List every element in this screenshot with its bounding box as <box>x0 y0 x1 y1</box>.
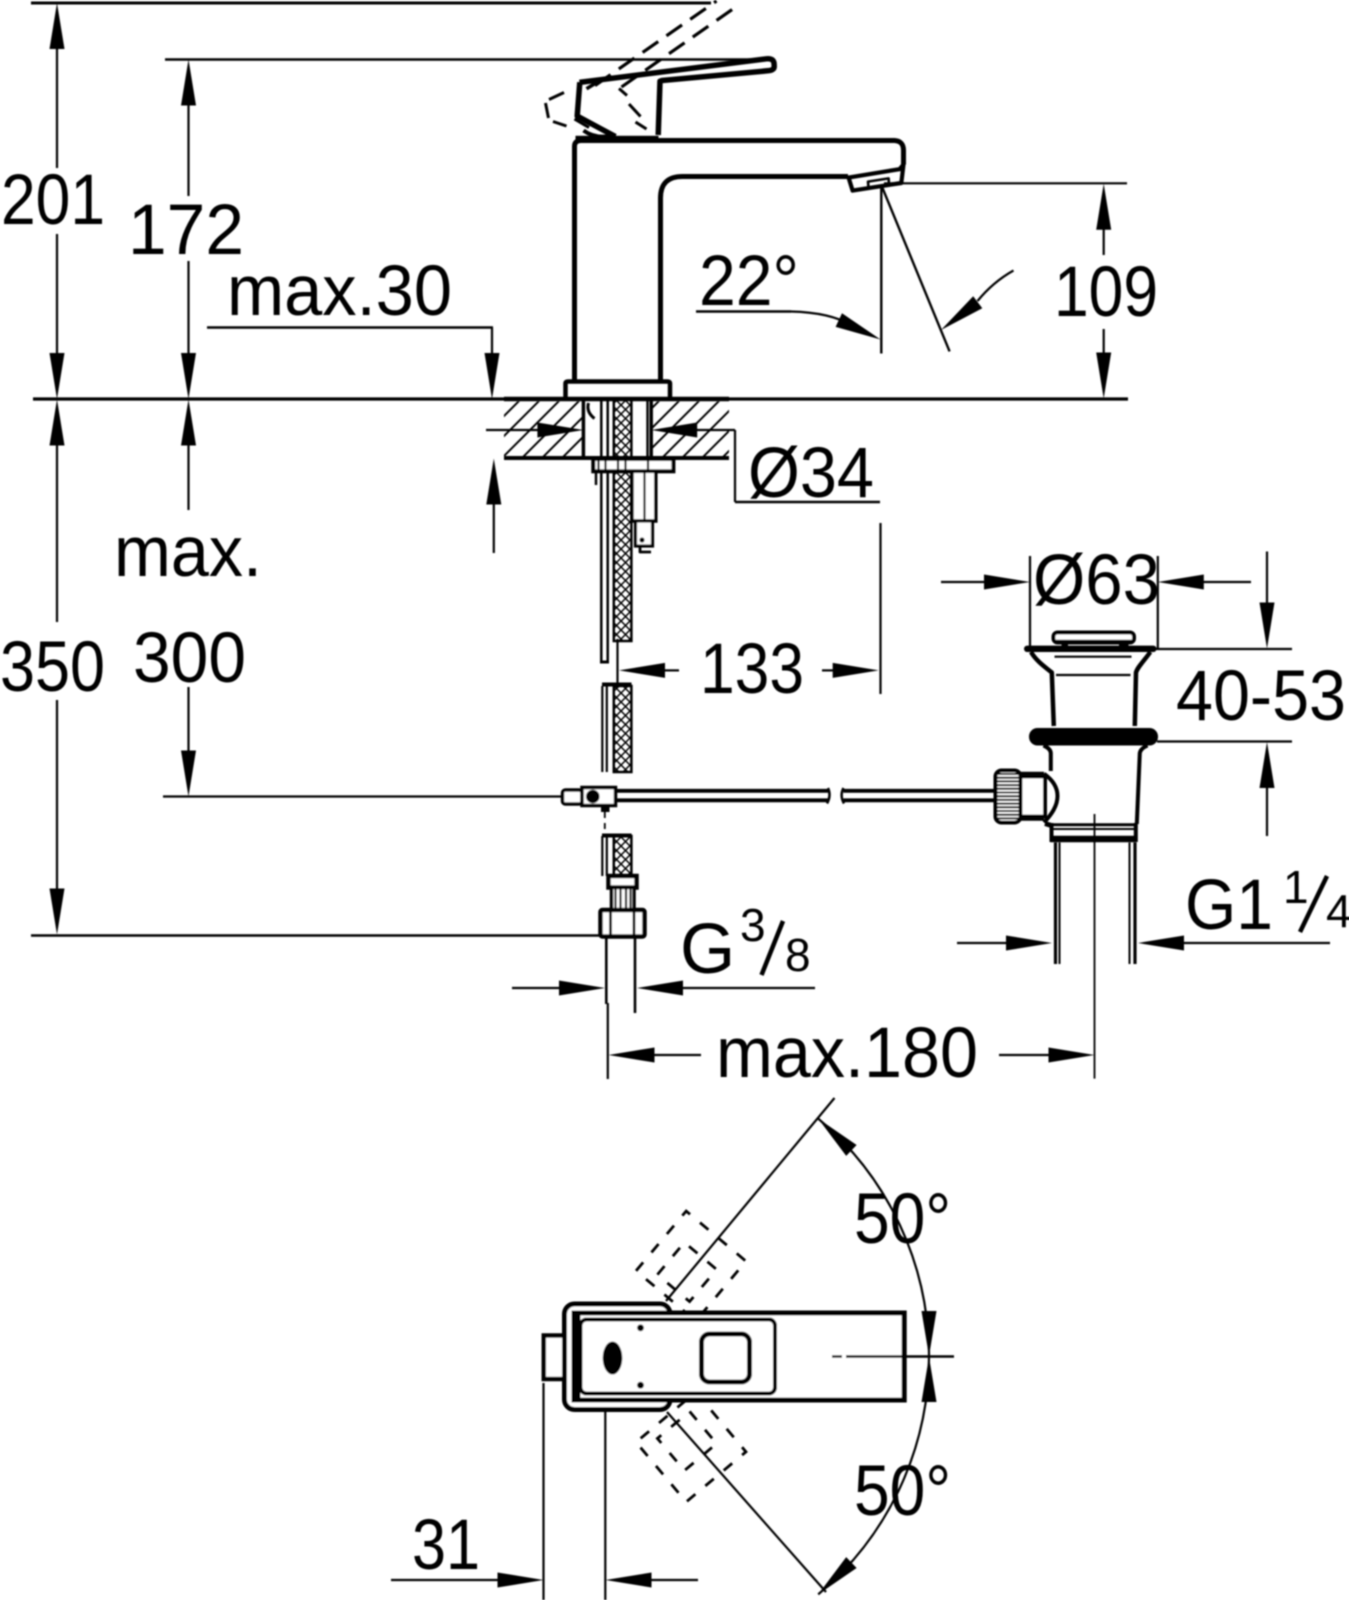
plan dashed square lower inner <box>657 1411 716 1470</box>
leader curve to vertical line <box>791 312 851 326</box>
dimension 133 arrow right <box>833 663 879 678</box>
countertop hatching right <box>651 402 729 457</box>
hose middle left line inner <box>606 686 608 772</box>
dimension max.300 arrow down <box>181 751 196 797</box>
rod break mark left <box>827 788 830 804</box>
waste center line <box>1094 814 1096 1079</box>
supply pipe right line <box>634 937 637 1014</box>
waste funnel right side <box>1135 652 1151 726</box>
svg-text:max.: max. <box>114 513 262 592</box>
waste push button cap <box>1054 633 1135 643</box>
connector rib 2 <box>619 888 621 910</box>
dimension 31 left extension line <box>542 1383 544 1600</box>
raised handle dash b <box>546 103 549 118</box>
waste knob stem <box>1021 777 1046 817</box>
dimension max.300 line lower segment <box>187 687 189 752</box>
connector rib 1 <box>614 888 616 910</box>
waste ring band top line <box>1052 823 1136 826</box>
raised handle dash a <box>549 93 564 100</box>
handle base inner corner line <box>587 82 599 89</box>
waste pipe outer left <box>1054 843 1057 965</box>
dimension 133 arrow left <box>619 663 665 678</box>
dimension 109 arrow down <box>1096 353 1111 399</box>
dimension 31 arrow right <box>498 1573 544 1588</box>
plan dashed square upper outer <box>636 1211 746 1321</box>
dimension max.30 leader line <box>207 326 493 328</box>
waste funnel inner line 1 <box>1055 656 1132 658</box>
dimension 201 arrow down <box>50 353 65 399</box>
dimension G3/8 right tail <box>683 987 815 989</box>
plan body square <box>565 1304 671 1410</box>
plan dot lower <box>637 1382 644 1389</box>
mounting bracket inner line <box>643 471 645 521</box>
svg-text:4: 4 <box>1326 885 1349 937</box>
countertop bottom line <box>504 456 729 460</box>
plan spout tab <box>544 1336 565 1380</box>
pivot dashed drop line <box>604 812 606 833</box>
faucet body right edge and spout underside <box>661 177 849 382</box>
dimension 40-53 arrow up <box>1260 742 1275 788</box>
arc arrow at centerline up <box>922 1357 937 1402</box>
hose middle cap <box>602 683 632 687</box>
plan cartridge square <box>702 1334 750 1382</box>
plan lever rectangle <box>574 1313 904 1400</box>
svg-text:133: 133 <box>700 630 804 709</box>
svg-text:50°: 50° <box>854 1452 951 1531</box>
svg-text:G: G <box>680 910 735 989</box>
dimension 172 arrow down <box>181 353 196 399</box>
waste push button foot left <box>1062 642 1069 648</box>
countertop hatching left <box>504 402 583 457</box>
plan centerline dash <box>832 1355 842 1357</box>
dimension 31 arrow left <box>606 1573 652 1588</box>
raised handle dash d <box>575 119 590 128</box>
dimension 133 right extension line <box>879 523 881 694</box>
dimension G1-1/4 arrow left <box>1138 936 1184 951</box>
plan dashed square lower outer <box>636 1392 746 1502</box>
dimension 350 arrow down <box>50 889 65 935</box>
pop-up rod segment 2 bottom <box>844 798 997 802</box>
dimension 201 line upper segment <box>56 46 58 168</box>
connector wide cap <box>609 876 637 888</box>
dimension 40-53 top reference line <box>1154 648 1292 650</box>
hose middle left line outer <box>601 686 603 772</box>
connector nut <box>601 910 645 937</box>
waste inlet boss top line <box>1020 772 1044 776</box>
plan diagonal line lower <box>667 1412 826 1592</box>
svg-text:max.180: max.180 <box>716 1014 978 1093</box>
waste body bottom left corner <box>1045 824 1053 827</box>
svg-text:201: 201 <box>1 161 105 240</box>
waste ring band left edge <box>1050 823 1054 842</box>
arc arrow lower end <box>818 1557 856 1594</box>
pivot lower tick <box>601 806 610 813</box>
mounting bracket foot <box>640 546 651 552</box>
waste flange lip <box>1024 646 1157 652</box>
mounting plate tick 1 <box>597 459 599 471</box>
dimension 133 left extension line <box>616 639 618 688</box>
svg-text:300: 300 <box>133 619 246 698</box>
raised handle dash c <box>553 122 567 127</box>
dimension 31 right extension line <box>604 1412 606 1600</box>
shank sleeve right line <box>649 399 653 457</box>
dimension 133 right tail <box>822 669 833 671</box>
arc arrow upper end <box>818 1119 856 1156</box>
dimension dia63 arrow right <box>984 575 1030 590</box>
mounting bracket lower step <box>636 521 653 546</box>
dimension 201 top reference line <box>31 2 711 5</box>
dimension max.300 bottom reference line <box>163 795 563 797</box>
dimension dia63 arrow left <box>1158 575 1204 590</box>
plan dashed square upper inner <box>657 1242 716 1301</box>
dimension G1-1/4 right tail <box>1184 942 1330 944</box>
dimension dia63 left tail <box>941 581 985 583</box>
svg-text:G1: G1 <box>1185 866 1273 945</box>
dimension max.30 arrow up below counter <box>486 459 501 505</box>
dimension 350 line upper segment <box>56 444 58 622</box>
waste funnel inner line 2 <box>1056 674 1131 676</box>
dimension G1-1/4 arrow right <box>1006 936 1052 951</box>
dimension 109 top reference line <box>884 182 1127 184</box>
dimension 40-53 lower tail <box>1266 787 1268 836</box>
svg-text:3: 3 <box>740 899 766 951</box>
dimension 109 lower tail <box>1103 329 1105 353</box>
handle base front arc <box>584 131 614 137</box>
svg-text:Ø34: Ø34 <box>748 434 874 513</box>
leader arrow at vertical line <box>836 313 881 339</box>
dimension 31 right tail <box>652 1579 699 1581</box>
waste o-ring <box>1029 728 1158 746</box>
connector rib 3 <box>625 888 627 910</box>
dimension max.30 tail below counter <box>493 503 495 553</box>
dimension 109 upper tail <box>1103 229 1105 255</box>
dimension 31 left tail <box>391 1579 498 1581</box>
handle lever outline <box>580 59 775 135</box>
waste push button foot right <box>1119 642 1129 648</box>
waste body left wall <box>1044 746 1051 772</box>
svg-text:31: 31 <box>412 1506 480 1585</box>
leader curve to angled line <box>978 271 1014 302</box>
waste push button inner line <box>1056 640 1132 642</box>
mounting bracket upper <box>632 471 656 521</box>
rod break mark right <box>842 788 844 804</box>
mounting plate tick 2 <box>604 459 606 471</box>
shank hook detail <box>588 403 595 419</box>
dimension dia34 leader vertical <box>734 430 736 502</box>
plan dot upper <box>637 1324 644 1331</box>
svg-text:max.30: max.30 <box>227 252 452 331</box>
faucet base flange <box>566 382 671 399</box>
hose end cap <box>600 661 609 664</box>
leader arrow at angled line <box>941 296 982 330</box>
mounting plate tick 5 <box>647 459 649 471</box>
shank sleeve right inner line <box>646 399 648 457</box>
plan kidney blob <box>603 1342 623 1375</box>
hose lower band <box>614 836 632 876</box>
plan lever inner surface <box>581 1320 776 1394</box>
pivot ball <box>586 790 600 804</box>
waste inlet boss bottom line <box>1020 817 1044 821</box>
raised handle dashed edge 1 <box>595 1 717 86</box>
connector ribbed section <box>612 888 635 911</box>
hose left line inner <box>606 401 609 662</box>
waste pipe inner left <box>1059 843 1061 965</box>
raised handle dash f <box>629 104 641 117</box>
svg-text:1: 1 <box>1283 861 1309 913</box>
mounting plate <box>593 459 673 471</box>
waste knob knurling <box>998 773 1019 775</box>
angle arc upper <box>818 1119 929 1357</box>
dimension 40-53 upper tail <box>1266 552 1268 605</box>
connector nut facet left <box>609 911 612 936</box>
mounting plate left drop line <box>595 471 598 485</box>
countertop top line <box>33 397 1128 400</box>
dimension max.180 left tail <box>655 1054 702 1056</box>
dimension dia34 left tail <box>486 429 538 431</box>
dimension 40-53 bottom reference line <box>1157 740 1292 742</box>
dimension 201 arrow up <box>50 3 65 49</box>
dimension G3/8 arrow left <box>637 981 683 996</box>
plan diagonal line upper <box>666 1098 835 1301</box>
dimension dia34 arrow left <box>651 423 697 438</box>
dimension max.30 arrow down <box>485 353 500 399</box>
shank sleeve left line <box>582 399 586 457</box>
dimension dia34 label underline <box>735 501 880 503</box>
handle base black strip <box>576 136 659 143</box>
threaded shank band <box>614 399 632 641</box>
label 22 deg underline <box>696 310 791 312</box>
dimension max.30 drop line <box>491 328 493 356</box>
dimension 109 arrow up <box>1096 184 1111 230</box>
raised handle dash e <box>619 89 627 96</box>
svg-text:22°: 22° <box>699 242 799 321</box>
connector nut facet right <box>633 911 636 936</box>
dimension G3/8 left tail <box>512 987 562 989</box>
dimension 350 line lower segment <box>56 700 58 890</box>
water stream vertical line <box>880 186 882 354</box>
spout aerator block <box>849 165 904 191</box>
waste knob <box>996 771 1021 823</box>
dimension 133 left tail <box>665 669 679 671</box>
waste ring band inner line <box>1053 828 1134 830</box>
svg-text:Ø63: Ø63 <box>1033 541 1160 620</box>
waste ring band right edge <box>1134 823 1138 842</box>
connector rib 4 <box>629 888 631 910</box>
waste ring band thick bottom <box>1051 836 1137 843</box>
dimension max.180 arrow right <box>1049 1048 1095 1063</box>
waste body right wall <box>1137 746 1148 825</box>
dimension 40-53 arrow down <box>1260 603 1275 649</box>
plan lever left thick edge <box>574 1313 581 1400</box>
handle base left outline <box>577 82 615 136</box>
dimension dia63 right tail <box>1203 581 1251 583</box>
dimension max.300 line upper segment <box>187 444 189 510</box>
dimension G1-1/4 left tail <box>957 942 1007 944</box>
waste inlet bulge <box>1044 774 1058 823</box>
faucet body outline <box>575 141 904 382</box>
mounting plate tick 3 <box>617 459 619 471</box>
raised handle dash g <box>636 122 647 129</box>
dimension 172 top reference line <box>165 58 771 61</box>
dimension 350 arrow up at counter <box>50 400 65 446</box>
supply pipe left line <box>605 937 608 1005</box>
arc arrow at centerline down <box>922 1311 937 1356</box>
dimension max.180 arrow left <box>609 1048 655 1063</box>
svg-text:109: 109 <box>1054 253 1158 332</box>
label G3/8 slash <box>762 921 784 975</box>
dimension 172 line upper segment <box>187 103 189 196</box>
hose left line outer <box>600 401 603 662</box>
water stream 22 deg line <box>882 188 949 352</box>
pivot left cap <box>563 790 583 804</box>
dimension max.300 arrow up at counter <box>181 400 196 446</box>
svg-text:350: 350 <box>0 628 105 707</box>
waste funnel left side <box>1031 652 1054 726</box>
dimension G3/8 arrow right <box>559 981 605 996</box>
pop-up rod segment 2 top <box>844 789 997 793</box>
dimension max.180 right tail <box>999 1054 1050 1056</box>
hose lower cap <box>602 834 632 838</box>
pop-up rod segment 1 bottom <box>616 798 829 802</box>
mounting plate tick 4 <box>624 459 626 471</box>
dimension dia34 right tail <box>697 429 735 431</box>
dimension 172 arrow up <box>181 60 196 106</box>
hose lower left line inner <box>606 836 608 876</box>
svg-text:40-53: 40-53 <box>1176 657 1346 736</box>
dimension max.180 left extension line <box>607 1003 609 1079</box>
dimension dia63 right extension line <box>1157 556 1159 648</box>
waste pipe inner right <box>1129 843 1131 965</box>
raised handle dashed edge 2 <box>622 8 736 88</box>
waste pipe outer right <box>1133 843 1136 965</box>
dimension 350 bottom reference line <box>31 934 601 936</box>
countertop top line thick segment <box>504 397 729 402</box>
dimension dia34 arrow right <box>537 423 583 438</box>
svg-text:8: 8 <box>785 929 811 981</box>
dimension 172 line lower segment <box>187 261 189 354</box>
hose lower left line outer <box>601 836 603 876</box>
dimension dia63 left extension line <box>1029 556 1031 648</box>
plan centerline <box>846 1355 954 1357</box>
pop-up rod segment 1 top <box>616 789 829 793</box>
pivot block <box>582 788 616 806</box>
dimension 201 line lower segment <box>56 234 58 354</box>
label G1-1/4 slash <box>1300 876 1327 932</box>
angle arc lower <box>818 1357 929 1595</box>
spout aerator slot <box>868 178 889 187</box>
hose middle band <box>614 686 632 772</box>
mounting bracket dot <box>639 537 644 542</box>
svg-text:50°: 50° <box>854 1180 951 1259</box>
